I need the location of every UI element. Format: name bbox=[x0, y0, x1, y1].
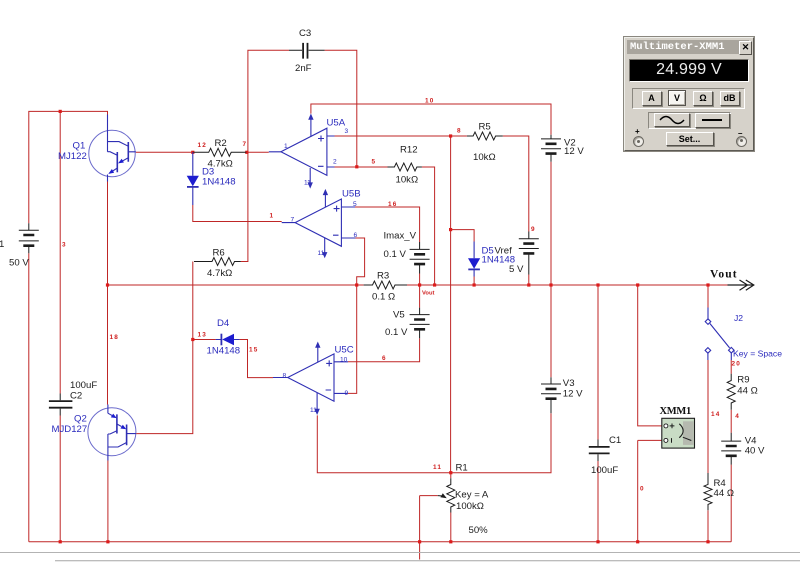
svg-text:16: 16 bbox=[388, 201, 398, 208]
svg-text:R3: R3 bbox=[377, 271, 389, 282]
svg-text:14: 14 bbox=[711, 411, 721, 418]
potentiometer R1 wiper arrow bbox=[438, 495, 442, 497]
bottom scrollbar edge bbox=[0, 552, 800, 554]
button DC bbox=[695, 113, 730, 128]
wire net 20 J2 blade to R9 bbox=[730, 360, 732, 374]
wire net 14 J2 contact to R4 bbox=[707, 360, 709, 473]
op-amp U5C plus minus bbox=[326, 360, 333, 390]
svg-text:1N4148: 1N4148 bbox=[202, 177, 236, 188]
svg-text:3: 3 bbox=[345, 128, 349, 135]
wire net 6 U5C pin10 to V5 bbox=[348, 338, 420, 362]
wire J2 pole from bus bbox=[707, 285, 709, 308]
svg-text:100uF: 100uF bbox=[591, 465, 618, 476]
svg-text:50%: 50% bbox=[469, 525, 489, 536]
button A bbox=[642, 91, 662, 106]
wire net 11 U5C pin11 to R1 top and V3 bottom bbox=[317, 413, 551, 472]
potentiometer R1 bbox=[447, 478, 455, 512]
Vout output arrow bbox=[728, 280, 754, 290]
op-amp U5B pins bbox=[282, 207, 356, 238]
op-amp U5B V+ arrow pin 4 bbox=[324, 195, 326, 208]
wire net 4 R9 to V4 bbox=[730, 410, 732, 433]
svg-text:1: 1 bbox=[270, 213, 275, 220]
wire main Vout bus left section bbox=[108, 284, 364, 286]
svg-text:U5A: U5A bbox=[327, 118, 346, 129]
waveform panel bbox=[648, 112, 731, 129]
op-amp U5C triangle bbox=[288, 354, 334, 401]
svg-text:R12: R12 bbox=[400, 145, 418, 156]
svg-text:MJD127: MJD127 bbox=[52, 424, 88, 435]
op-amp U5C pins bbox=[273, 362, 348, 394]
svg-text:6: 6 bbox=[382, 355, 387, 362]
svg-text:18: 18 bbox=[110, 334, 120, 341]
button V selected bbox=[668, 90, 686, 106]
svg-text:4: 4 bbox=[735, 413, 740, 420]
wire R1 top lead bbox=[450, 473, 452, 479]
svg-text:10: 10 bbox=[425, 98, 435, 105]
battery V3 12V bbox=[541, 377, 561, 413]
wire net 3 (V1+ rail down to C2) bbox=[59, 111, 61, 393]
wire U5A pin3 to R5 (net 8) bbox=[335, 135, 467, 137]
battery V4 40V bbox=[721, 433, 741, 465]
svg-text:J2: J2 bbox=[734, 313, 743, 323]
display bbox=[629, 59, 749, 82]
battery Imax_V 0.1V bbox=[410, 242, 430, 274]
svg-text:10kΩ: 10kΩ bbox=[396, 175, 419, 186]
wire net 16 U5B pin5 to Imax_V bbox=[355, 207, 420, 242]
svg-text:11: 11 bbox=[310, 407, 317, 414]
svg-text:13: 13 bbox=[198, 332, 208, 339]
wire stub below ground rail bbox=[419, 542, 421, 560]
wire V1 bottom bbox=[28, 253, 30, 542]
wire D4 right to U5C output (net 15) bbox=[240, 340, 273, 378]
diode D3 1N4148 bbox=[192, 152, 194, 205]
svg-text:9: 9 bbox=[345, 390, 349, 397]
button sine bbox=[654, 113, 690, 127]
wire main Vout bus right section bbox=[407, 284, 728, 286]
wire net 1 D3 to U5B output bbox=[193, 205, 282, 222]
button ohm bbox=[693, 91, 713, 106]
svg-text:6: 6 bbox=[354, 232, 358, 239]
op-amp U5B triangle bbox=[295, 199, 341, 246]
wire bus node down to U5C pin9 bbox=[348, 285, 357, 393]
mode panel bbox=[632, 88, 745, 109]
svg-text:9: 9 bbox=[531, 226, 536, 233]
svg-text:4.7kΩ: 4.7kΩ bbox=[207, 268, 232, 279]
blue components bbox=[88, 114, 734, 461]
svg-text:5: 5 bbox=[372, 158, 377, 165]
svg-text:Imax_V: Imax_V bbox=[384, 231, 417, 242]
wire V1 top to Q1 collector bbox=[29, 111, 108, 223]
wire R1 wiper to ground rail bbox=[420, 496, 438, 542]
wire XMM1 minus terminal to ground (net 0) bbox=[638, 440, 662, 541]
resistor R4 bbox=[704, 473, 712, 510]
wire Imax_V bottom to bus bbox=[419, 274, 421, 286]
svg-text:5: 5 bbox=[353, 201, 357, 208]
wire D4 left lead bbox=[193, 339, 216, 341]
wire C3 left branch bbox=[241, 50, 289, 261]
wire D5 cathode to bus bbox=[473, 277, 475, 286]
wire Q1 base to node 12 bbox=[136, 151, 193, 153]
resistor R5 bbox=[467, 132, 503, 140]
svg-text:U5B: U5B bbox=[342, 189, 361, 200]
transistor Q2 MJD127 circle bbox=[88, 408, 136, 456]
capacitor C1 100uF bbox=[589, 447, 610, 454]
resistor R6 bbox=[194, 258, 241, 266]
svg-text:100uF: 100uF bbox=[70, 380, 97, 391]
svg-text:MJ122: MJ122 bbox=[58, 151, 87, 162]
svg-text:8: 8 bbox=[283, 372, 287, 379]
wire U5A pin2 to R12 (net 5) bbox=[335, 166, 388, 168]
multimeter XMM1 dialog window bbox=[624, 37, 754, 151]
svg-text:2nF: 2nF bbox=[295, 63, 312, 74]
svg-text:Q2: Q2 bbox=[74, 414, 87, 425]
wire net 18 bus to Q2 collector bbox=[107, 285, 109, 405]
transistor Q1 internals bbox=[108, 115, 136, 182]
svg-text:XMM1: XMM1 bbox=[660, 406, 692, 417]
svg-text:0: 0 bbox=[640, 486, 645, 493]
wire V2 bottom to bus bbox=[550, 162, 552, 285]
resistor R3 bbox=[364, 281, 407, 289]
diode D5 1N4148 bbox=[473, 242, 475, 277]
svg-text:20: 20 bbox=[732, 360, 742, 367]
svg-text:0.1 V: 0.1 V bbox=[385, 327, 408, 338]
battery V5 0.1V bbox=[410, 308, 430, 339]
battery Vref 5V bbox=[519, 232, 539, 275]
svg-text:7: 7 bbox=[291, 217, 295, 224]
resistor R12 bbox=[388, 163, 422, 171]
svg-text:40 V: 40 V bbox=[745, 446, 765, 457]
battery V1 50V bbox=[19, 223, 39, 253]
svg-text:R5: R5 bbox=[479, 122, 491, 133]
op-amp U5C V- pin 11 bbox=[316, 393, 318, 410]
instrument XMM1 box bbox=[662, 418, 695, 448]
wire bottom bus rail bbox=[29, 541, 731, 543]
wire net 10 U5A V+ to V2 bbox=[311, 104, 551, 135]
svg-text:1: 1 bbox=[0, 239, 4, 250]
svg-text:R1: R1 bbox=[456, 463, 468, 474]
transistor Q1 MJ122 circle bbox=[89, 130, 135, 176]
op-amp U5A triangle bbox=[281, 128, 327, 175]
wire V3 top to bus bbox=[550, 285, 552, 377]
svg-text:R2: R2 bbox=[215, 138, 227, 149]
wire Q2 base to net 13 riser bbox=[136, 262, 193, 434]
svg-text:1: 1 bbox=[284, 143, 288, 150]
svg-text:11: 11 bbox=[433, 464, 442, 471]
op-amp U5A V- pin 11 bbox=[309, 168, 311, 183]
svg-text:V5: V5 bbox=[393, 310, 405, 321]
resistor R2 bbox=[193, 148, 246, 156]
op-amp U5C V+ arrow pin 4 bbox=[317, 348, 319, 363]
svg-text:Q1: Q1 bbox=[73, 141, 86, 152]
svg-text:Vout: Vout bbox=[422, 291, 435, 297]
op-amp U5A V+ arrow pin 4 bbox=[310, 119, 312, 137]
svg-text:0.1 Ω: 0.1 Ω bbox=[372, 292, 395, 303]
svg-text:C3: C3 bbox=[299, 28, 311, 39]
op-amp U5A plus minus bbox=[318, 136, 324, 167]
svg-text:R9: R9 bbox=[737, 374, 749, 385]
wire 5V source bottom to bus bbox=[528, 275, 530, 286]
Set button bbox=[666, 132, 714, 146]
svg-text:8: 8 bbox=[457, 128, 462, 135]
wire U5B pin6 down to bus node bbox=[356, 238, 365, 285]
svg-text:50 V: 50 V bbox=[9, 258, 29, 269]
svg-text:11: 11 bbox=[304, 180, 311, 187]
svg-text:11: 11 bbox=[318, 250, 325, 257]
title bar bbox=[627, 40, 749, 54]
wire C2 bottom to ground rail bbox=[59, 416, 61, 542]
svg-text:12: 12 bbox=[198, 142, 208, 149]
wire Q2 emitter to ground rail bbox=[107, 461, 109, 542]
wire R12 right to bus bbox=[422, 167, 435, 285]
svg-text:Key = Space: Key = Space bbox=[733, 349, 782, 359]
op-amp U5B V- pin 11 bbox=[324, 238, 326, 253]
wire C1 top bbox=[597, 285, 599, 440]
wires group bbox=[29, 50, 731, 559]
svg-text:1N4148: 1N4148 bbox=[207, 346, 241, 357]
svg-text:C2: C2 bbox=[70, 391, 82, 402]
battery V2 12V bbox=[541, 135, 561, 162]
svg-text:10: 10 bbox=[340, 356, 348, 363]
button dB bbox=[720, 91, 740, 106]
svg-text:12 V: 12 V bbox=[564, 146, 584, 157]
wire node 7 to U5A output bbox=[247, 151, 269, 153]
plus terminal bbox=[633, 136, 644, 147]
transistor Q2 internals bbox=[108, 405, 136, 461]
wire R1 bottom to rail bbox=[450, 513, 452, 542]
capacitor C2 100uF bbox=[49, 401, 73, 408]
close button bbox=[739, 41, 752, 55]
svg-text:R6: R6 bbox=[213, 248, 225, 259]
wire R4 bottom to rail bbox=[707, 510, 709, 542]
svg-text:100kΩ: 100kΩ bbox=[456, 501, 484, 512]
svg-text:5 V: 5 V bbox=[509, 264, 524, 275]
op-amp U5A pins bbox=[269, 136, 335, 167]
svg-text:D4: D4 bbox=[217, 318, 230, 329]
wire C3 right branch bbox=[325, 50, 357, 167]
svg-text:0.1 V: 0.1 V bbox=[384, 249, 407, 260]
wire D5 anode branch bbox=[451, 230, 475, 242]
op-amp U5B plus minus bbox=[333, 206, 340, 236]
svg-text:10kΩ: 10kΩ bbox=[473, 152, 496, 163]
wire V5 top to bus bbox=[419, 285, 421, 308]
wire Q1 emitter to bus bbox=[107, 182, 109, 286]
wire C1 bottom bbox=[597, 461, 599, 542]
svg-text:44 Ω: 44 Ω bbox=[737, 386, 758, 397]
wire V4 bottom to rail bbox=[730, 465, 732, 542]
minus terminal bbox=[736, 136, 747, 147]
svg-text:2: 2 bbox=[333, 159, 337, 166]
svg-text:C1: C1 bbox=[609, 435, 621, 446]
svg-text:Key = A: Key = A bbox=[455, 489, 489, 500]
wire net 8 vertical R5 node down to net 11 bbox=[450, 136, 452, 473]
resistor R9 bbox=[727, 374, 735, 410]
svg-text:3: 3 bbox=[62, 242, 67, 249]
svg-text:7: 7 bbox=[243, 141, 248, 148]
svg-text:Vout: Vout bbox=[710, 269, 738, 281]
wire R5 right to 5V source (net 9) bbox=[503, 136, 529, 232]
diode D4 1N4148 bbox=[216, 339, 240, 341]
switch J2 bbox=[708, 308, 731, 361]
svg-text:U5C: U5C bbox=[335, 345, 354, 356]
svg-text:12 V: 12 V bbox=[563, 388, 583, 399]
capacitor C3 2nF bbox=[303, 43, 307, 59]
svg-text:15: 15 bbox=[249, 347, 259, 354]
svg-text:44 Ω: 44 Ω bbox=[714, 488, 735, 499]
wire XMM1 plus terminal riser bbox=[638, 285, 662, 426]
